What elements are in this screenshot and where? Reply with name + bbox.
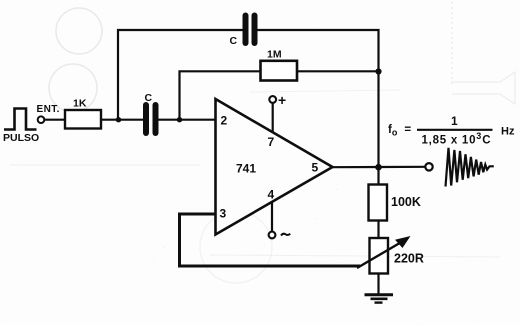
svg-text:3: 3	[220, 207, 227, 221]
svg-text:1K: 1K	[73, 98, 87, 110]
V+ terminal	[269, 96, 276, 103]
pin 7 wire up	[272, 103, 274, 133]
svg-text:C: C	[230, 35, 238, 47]
resistor 1M	[261, 61, 298, 81]
svg-text:220R: 220R	[394, 252, 424, 266]
svg-text:1M: 1M	[267, 49, 282, 61]
svg-text:7: 7	[268, 135, 275, 149]
faint scan lines	[10, 90, 500, 257]
fraction bar	[417, 129, 493, 131]
input terminal	[38, 116, 45, 123]
resistor 100K	[369, 185, 388, 221]
svg-text:C: C	[145, 92, 153, 104]
faint bleed-through marks top right	[452, 2, 515, 104]
wire node A up	[118, 30, 243, 120]
resistor 1K	[65, 110, 101, 129]
svg-text:ENT.: ENT.	[37, 104, 60, 115]
wiper arrow	[357, 241, 404, 269]
minus sign	[281, 234, 290, 236]
V- terminal	[269, 232, 276, 239]
op-amp 741	[216, 99, 333, 235]
svg-text:2: 2	[221, 114, 228, 128]
wire R1 to node A	[101, 119, 144, 121]
capacitor C series	[146, 105, 156, 133]
ground	[365, 295, 394, 303]
node D junction	[177, 117, 182, 122]
wire node E to 100K	[377, 167, 379, 185]
potentiometer 220R	[370, 238, 389, 274]
wire 100K to 220R	[377, 221, 379, 239]
svg-text:Hz: Hz	[501, 126, 515, 138]
wire node B down to node E	[377, 72, 379, 169]
svg-text:741: 741	[236, 162, 256, 176]
svg-text:100K: 100K	[391, 195, 421, 209]
wire input to R1	[45, 119, 66, 121]
pulse input symbol	[4, 109, 37, 130]
wire pin3 loop	[180, 214, 361, 266]
output terminal	[425, 163, 432, 170]
pin 4 wire down	[271, 202, 273, 232]
node A junction	[116, 117, 121, 122]
wire top cap to right corner	[258, 30, 379, 73]
svg-text:1: 1	[451, 114, 458, 128]
node E junction	[375, 164, 382, 171]
node B junction	[375, 68, 381, 74]
formula f0	[388, 114, 515, 147]
svg-text:5: 5	[312, 161, 319, 175]
wire 1M to node B	[297, 70, 379, 72]
damped oscillation waveform	[446, 148, 494, 187]
faint bleed-through ring top-left	[49, 8, 272, 283]
wire output to node E and terminal	[333, 166, 426, 169]
wire cap to op-amp pin2	[159, 119, 217, 121]
svg-text:PULSO: PULSO	[3, 132, 39, 144]
capacitor C feedback (top)	[246, 16, 255, 44]
svg-text:+: +	[278, 92, 286, 108]
wire node D up to 1M	[180, 71, 262, 119]
wire 220R to ground	[377, 274, 379, 295]
svg-text:4: 4	[268, 188, 275, 202]
wiper arrowhead	[395, 236, 411, 248]
